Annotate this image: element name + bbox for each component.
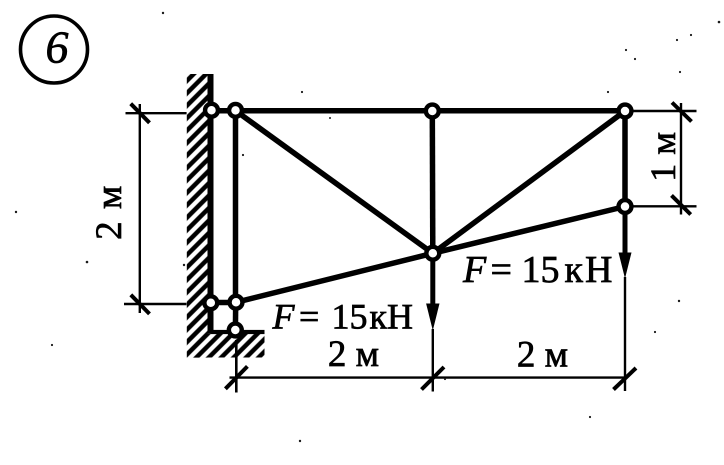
node top-left on wall <box>205 104 218 117</box>
wall hatching <box>187 74 265 358</box>
force arrow middle F=15kH <box>426 253 439 391</box>
node bottom-left second <box>230 296 243 309</box>
svg-text:F=15кН: F=15кН <box>462 249 614 291</box>
force arrow right F=15kH <box>619 207 632 392</box>
wire diagonal top-left to middle <box>236 111 433 254</box>
wire top chord <box>209 108 625 114</box>
wire bottom horizontal link <box>211 300 237 306</box>
node right lower <box>619 200 632 213</box>
wire diagonal top-right to middle <box>433 111 625 253</box>
dimension 1m right vertical <box>633 103 697 215</box>
dimension bottom horizontal <box>225 340 636 393</box>
svg-text:2 м: 2 м <box>328 334 379 375</box>
wall edge line <box>208 74 214 334</box>
node top right <box>619 105 632 118</box>
dimension 2m left vertical <box>124 104 187 314</box>
svg-text:6: 6 <box>46 22 69 73</box>
svg-text:2 м: 2 м <box>89 184 130 240</box>
node middle <box>426 247 439 260</box>
wire left vertical member <box>233 111 239 303</box>
svg-text:1 м: 1 м <box>643 132 683 182</box>
svg-text:F=15кН: F=15кН <box>272 296 414 336</box>
wire lower-left member <box>236 253 433 302</box>
badge circle 6 <box>21 16 88 83</box>
svg-text:2 м: 2 м <box>517 334 568 375</box>
node bottom-left pin on wall <box>204 296 217 309</box>
wire bottom vertical link <box>233 303 239 331</box>
support ledge <box>211 330 265 334</box>
node roller support <box>229 324 242 337</box>
node top-left second <box>229 104 242 117</box>
node top middle <box>426 105 439 118</box>
wire right vertical member <box>622 111 628 207</box>
wire middle vertical member <box>430 111 436 253</box>
wire lower-right member <box>433 207 625 254</box>
